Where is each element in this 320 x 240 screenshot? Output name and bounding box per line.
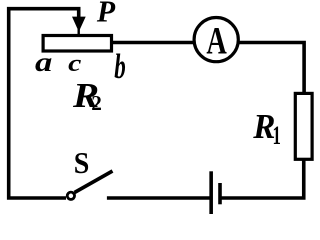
label c — [68, 50, 81, 77]
wire: rheostat b terminal to ammeter — [112, 41, 195, 45]
ammeter A circle — [194, 17, 238, 61]
svg-text:c: c — [68, 50, 81, 77]
label S — [74, 147, 90, 181]
svg-text:1: 1 — [272, 120, 280, 150]
svg-text:P: P — [96, 0, 116, 29]
label P — [96, 0, 116, 29]
switch S blade — [75, 171, 113, 193]
battery long (positive) plate — [209, 171, 213, 214]
wire: R1 bottom to bottom-right corner to battery positive plate — [222, 159, 304, 198]
svg-text:R: R — [252, 108, 275, 146]
svg-text:2: 2 — [91, 91, 102, 115]
slider P arrowhead — [72, 17, 86, 32]
svg-text:S: S — [74, 147, 90, 181]
rheostat R2 body — [43, 36, 111, 52]
battery short (negative) plate — [218, 183, 222, 204]
wire: battery to switch fixed contact — [107, 196, 210, 200]
resistor R1 body — [295, 93, 312, 159]
label R2 — [72, 77, 99, 116]
svg-text:A: A — [206, 20, 227, 62]
wire: ammeter to top-right corner down to R1 — [239, 43, 305, 94]
wire: left vertical + top horizontal + slider stem — [9, 9, 79, 198]
svg-text:b: b — [114, 48, 125, 86]
ammeter label A — [206, 20, 227, 62]
svg-text:a: a — [35, 47, 52, 78]
label b — [114, 48, 125, 86]
label a — [35, 47, 52, 78]
label R1 — [252, 108, 275, 146]
switch S pivot circle — [67, 192, 74, 199]
